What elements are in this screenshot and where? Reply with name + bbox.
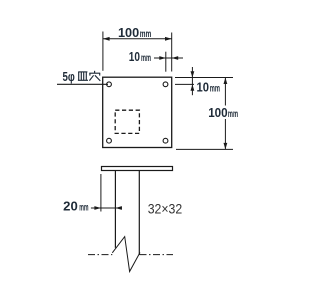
dimension 100mm top: right extension line	[171, 33, 173, 72]
hole top-right	[163, 82, 168, 87]
dimension 10mm right vertical: dimension line with outside arrows	[191, 67, 193, 78]
right side: plate-top extension line	[175, 77, 233, 79]
front view: post left edge	[114, 171, 116, 248]
svg-text:10: 10	[129, 49, 140, 64]
dimension 20mm: extension line	[100, 174, 102, 212]
break line (zigzag)	[112, 237, 140, 272]
front view: plate bar	[102, 167, 173, 171]
svg-text:100: 100	[118, 25, 139, 40]
svg-text:20: 20	[63, 198, 78, 213]
svg-text:32×32: 32×32	[148, 201, 183, 217]
svg-text:mm: mm	[210, 83, 220, 95]
arrowhead right	[165, 37, 172, 41]
leader line for countersunk hole label	[57, 83, 108, 85]
svg-text:5φ: 5φ	[63, 69, 75, 84]
right side: hole-center extension line	[175, 83, 194, 85]
svg-text:100: 100	[208, 105, 228, 120]
kanji ana (hole) drawn strokes	[89, 71, 100, 81]
front view: post right edge	[138, 171, 140, 256]
svg-text:10: 10	[197, 80, 210, 95]
centerline right (dash-dot)	[140, 254, 174, 256]
svg-text:mm: mm	[141, 52, 151, 64]
kanji sara (dish) drawn strokes	[78, 72, 88, 80]
dimension 100mm right vertical: dimension line	[224, 78, 226, 150]
svg-text:mm: mm	[140, 28, 152, 40]
dimension 20mm: dimension line with outside arrows	[91, 207, 101, 209]
dimension 10mm top: hole-center extension line	[165, 52, 167, 72]
centerline left (dash-dot)	[88, 254, 112, 256]
hidden post outline (dashed square 32x32)	[115, 110, 139, 133]
dimension 100mm top: left extension line	[102, 32, 104, 71]
arrowhead left	[103, 37, 110, 41]
hole top-left (5 dia countersunk)	[107, 82, 112, 87]
plate top view outline	[103, 77, 172, 147]
right side: plate-bottom extension line	[176, 148, 233, 150]
hole bottom-right	[163, 138, 168, 143]
svg-text:mm: mm	[79, 201, 88, 213]
dimension 10mm top: dimension line with outside arrows	[154, 57, 166, 59]
white halo behind right 100mm text	[207, 106, 240, 120]
hole bottom-left	[107, 138, 112, 143]
svg-text:mm: mm	[228, 108, 238, 120]
dimension 100mm top: dimension line	[103, 38, 172, 40]
